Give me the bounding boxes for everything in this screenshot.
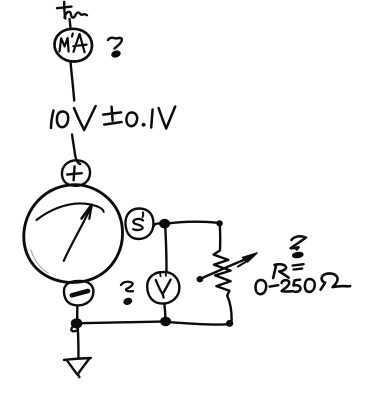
wire: node A to top-right corner [169,222,218,224]
wire: node C to ground [77,328,80,358]
label: ? near - terminal [121,282,133,305]
wire: S terminal to node A [154,223,161,226]
ammeter label apostrophe [71,34,74,37]
source label letter V (second) [159,107,176,129]
terminal S circle [125,208,153,239]
label dash [270,285,279,286]
source label plus-minus [103,107,121,125]
label R [273,264,288,278]
node C junction dot [72,319,81,327]
source label digit 1 [51,111,54,129]
wire: node B to node C [81,322,161,324]
label digit 5 [293,280,300,292]
terminal + sign [67,167,82,181]
corner dot top-right [218,222,222,226]
supply terminal (cross + squiggle) [57,2,87,19]
wire: rheostat bottom to corner [227,296,231,320]
source label digit 0 (second) [126,113,137,127]
label digit 2 [282,280,294,291]
label omega [321,273,351,289]
label: ? above R [291,236,306,257]
meter scale arc [37,203,104,220]
terminal + circle [62,160,90,186]
source label digit 1 (second) [151,110,152,128]
wire: - terminal to node C [76,306,79,319]
wire: terminal to ammeter [70,19,71,29]
voltmeter circle [147,272,179,304]
wire: voltmeter to node B [164,304,165,317]
source label digit 0 [57,112,68,128]
terminal - dash [72,291,88,295]
label digit 0 (second) [305,279,315,292]
label: ? unknown current [108,38,122,57]
voltmeter letter V [156,280,171,298]
ammeter MA circle [54,29,92,62]
label digit 0 [256,280,267,294]
meter inner faint stroke [31,250,48,273]
rheostat R zigzag [214,250,231,295]
node A junction dot [160,220,169,227]
ammeter label M [60,38,69,52]
meter body circle [24,185,123,283]
terminal - circle [64,281,93,305]
rheostat wiper arrow shaft [200,257,252,279]
rheostat wiper arrowhead [243,253,258,262]
source label decimal point [142,123,146,127]
voltmeter tick marks at top [160,273,166,276]
rheostat wiper arrowhead barb [238,261,248,267]
wire: bottom-right corner to node B [170,320,232,325]
wire: source label to + terminal [72,135,80,165]
corner dot bottom-right [227,321,232,326]
rheostat wiper tail dot [198,277,202,281]
node C pen curl [71,327,77,331]
label = [293,264,304,269]
ammeter label A [73,34,86,52]
ground symbol [64,358,91,377]
wire: node A down to voltmeter [165,228,166,272]
node B junction dot [161,318,170,325]
meter needle [64,205,92,261]
wire: ammeter to source label [71,63,75,101]
terminal S apostrophe [142,212,145,217]
wire: corner down to rheostat top [219,225,222,250]
terminal S letter [133,219,143,230]
source label letter V [74,106,96,130]
